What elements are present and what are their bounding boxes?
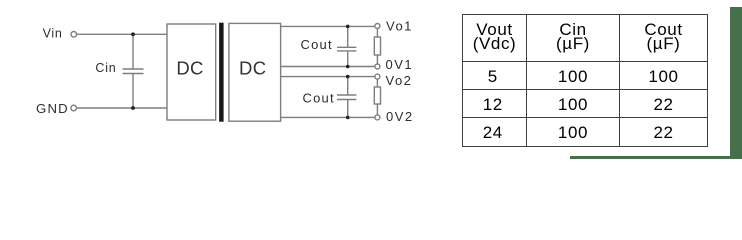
svg-text:DC: DC: [239, 58, 266, 79]
svg-text:Cout: Cout: [301, 37, 333, 52]
svg-text:Cout: Cout: [303, 91, 335, 106]
svg-text:DC: DC: [176, 58, 203, 79]
svg-text:GND: GND: [36, 101, 69, 116]
svg-text:0V1: 0V1: [386, 57, 414, 72]
svg-text:Vo1: Vo1: [386, 19, 413, 34]
svg-text:Vin: Vin: [43, 27, 63, 41]
svg-text:Cin: Cin: [95, 61, 116, 75]
svg-text:Vo2: Vo2: [386, 73, 413, 88]
svg-text:0V2: 0V2: [386, 109, 414, 124]
